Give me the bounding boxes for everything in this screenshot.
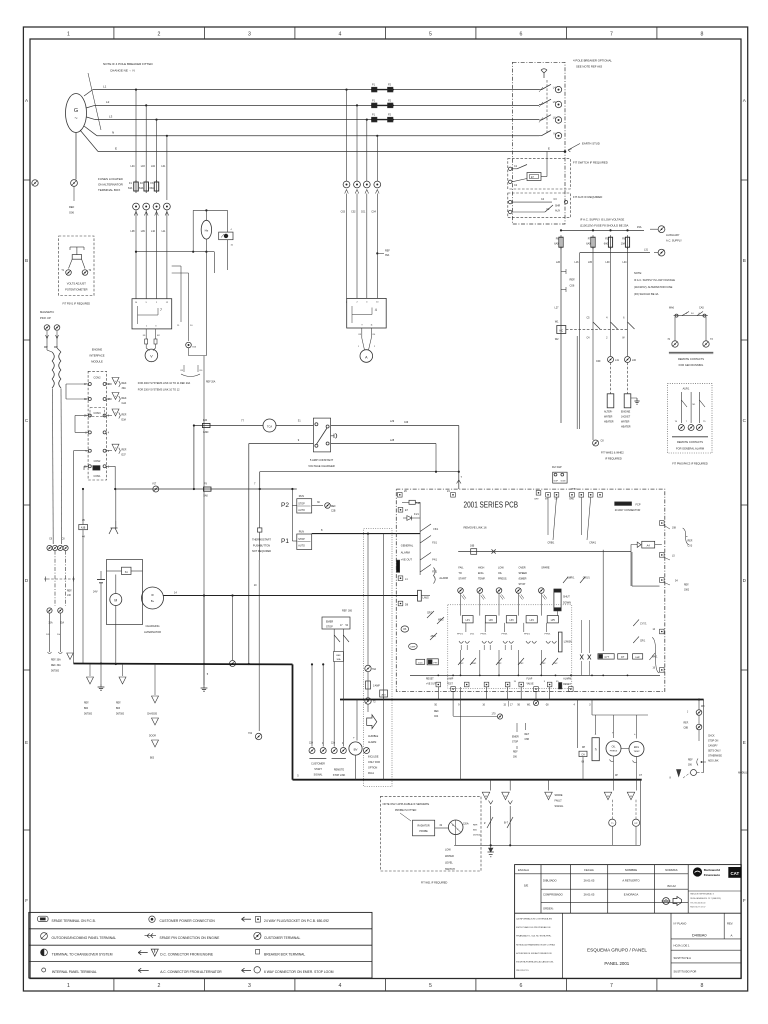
svg-text:F1/2: F1/2 [459, 663, 464, 665]
svg-text:ALARM: ALARM [401, 551, 410, 555]
svg-text:WATER: WATER [621, 421, 630, 424]
svg-text:D67500: D67500 [116, 714, 125, 716]
svg-text:CRB0: CRB0 [571, 489, 578, 491]
svg-text:INTERFACE: INTERFACE [89, 354, 104, 358]
wire F5 drop [610, 247, 612, 356]
wire thermostart drop [248, 444, 250, 665]
svg-text:OTHERWISE: OTHERWISE [708, 756, 722, 758]
heater ground [631, 397, 637, 399]
contact F2/2 [496, 658, 502, 665]
svg-text:NOTE:: NOTE: [634, 271, 642, 275]
svg-text:PP2/1: PP2/1 [481, 634, 488, 636]
fuse F2 63A [144, 182, 149, 191]
contact F3/2 [518, 658, 524, 665]
bus DC negative [74, 663, 293, 666]
svg-text:12A: 12A [331, 742, 336, 745]
wire charger output L29 [331, 425, 459, 427]
wire aux AC neutral [580, 252, 650, 254]
contact CYT/1 [633, 620, 639, 627]
svg-text:CHANGE NE → N: CHANGE NE → N [110, 69, 135, 73]
lamp LP2 [485, 616, 496, 623]
chassis ref B03 [122, 664, 124, 676]
breaker enclosure CB1 (dash-dot) [513, 62, 566, 224]
svg-text:0P: 0P [615, 775, 618, 777]
gauge oil pressure [606, 741, 621, 756]
svg-text:F1/1: F1/1 [414, 513, 419, 516]
wire 50 [437, 687, 439, 700]
svg-text:REF.: REF. [434, 711, 439, 713]
wire 5 dc common [203, 596, 205, 686]
svg-text:WATER: WATER [445, 855, 454, 858]
svg-text:ADD LINK: ADD LINK [708, 760, 719, 763]
pcb top aux pins [579, 493, 584, 498]
svg-text:CRS/1: CRS/1 [583, 577, 591, 580]
pcb internal verticals [460, 593, 462, 615]
wire L08 tap to Hz meter [136, 251, 214, 253]
wire 70A [367, 534, 369, 665]
svg-text:16B: 16B [470, 545, 475, 548]
svg-text:REF.: REF. [473, 825, 478, 827]
svg-text:RESET: RESET [426, 679, 434, 681]
pcb enclosure 2001 series (dash-dot) [396, 489, 665, 691]
sender wire CT [636, 757, 638, 791]
wire 15/17 [507, 687, 509, 700]
bus emer vertical [292, 664, 294, 779]
svg-text:RUN: RUN [299, 495, 304, 498]
svg-text:NOMBRE: NOMBRE [625, 868, 637, 872]
lamp LP1 [462, 616, 473, 623]
svg-text:A: A [731, 934, 733, 938]
bracket MA/1 [652, 637, 659, 673]
svg-text:LOW: LOW [498, 567, 504, 570]
option box (dotted) [364, 529, 392, 787]
general alarm output block [397, 560, 400, 572]
terminal T1 [66, 270, 72, 276]
svg-text:6: 6 [519, 983, 522, 989]
svg-text:REF. 30A: REF. 30A [51, 659, 61, 662]
legend dc connector symbol [138, 952, 148, 954]
box volts adjust potentiometer (dashed) [59, 236, 94, 296]
pcb top pin 24b [451, 493, 456, 498]
terminal 70A [365, 665, 371, 671]
ground water level [490, 845, 492, 852]
svg-text:CON3: CON3 [94, 412, 102, 415]
fuse F9 5A [204, 487, 212, 491]
breaker pole L4 [539, 89, 542, 91]
svg-text:STOP: STOP [512, 742, 519, 744]
svg-text:SHUT: SHUT [563, 595, 570, 598]
legend 24 way plug [242, 918, 252, 920]
svg-text:LEVEL: LEVEL [445, 862, 453, 865]
svg-text:MA6: MA6 [669, 307, 675, 310]
svg-text:L02: L02 [151, 165, 156, 168]
svg-text:PRESS.: PRESS. [498, 578, 507, 581]
svg-text:FIT SWITCH IF REQUIRED: FIT SWITCH IF REQUIRED [573, 161, 608, 165]
svg-text:REMOVE LINK 16: REMOVE LINK 16 [464, 526, 487, 530]
legend 6 way connector symbol [242, 969, 252, 971]
svg-text:L09: L09 [141, 230, 146, 233]
terminal C4 wire [509, 200, 512, 203]
svg-text:LA INFORMACION CONTENIDA EN: LA INFORMACION CONTENIDA EN [516, 918, 552, 921]
svg-text:A.C. CONNECTOR FROM ALTERNATOR: A.C. CONNECTOR FROM ALTERNATOR [160, 970, 222, 974]
svg-text:ORDEN:: ORDEN: [543, 907, 554, 911]
wire L16 drop [579, 253, 581, 429]
svg-text:F: F [25, 898, 28, 903]
wire F8 drop [627, 247, 629, 356]
svg-text:Y02: Y02 [248, 733, 253, 735]
svg-text:CR/1: CR/1 [640, 641, 646, 643]
alarm bracket [434, 568, 436, 584]
wire 9 feed [249, 443, 314, 445]
svg-text:ALARM: ALARM [439, 577, 448, 580]
emer stop pushbutton [322, 617, 350, 629]
svg-text:ENGINE: ENGINE [621, 411, 631, 414]
svg-text:BREAKER BOX TERMINAL: BREAKER BOX TERMINAL [264, 952, 305, 956]
svg-text:ISO A2: ISO A2 [667, 884, 676, 888]
svg-text:LAMP: LAMP [447, 678, 454, 681]
wire 32 [435, 827, 449, 829]
wire 30 from P2 [312, 505, 323, 507]
svg-text:ESTE PLANO ES PROPIEDAD DE: ESTE PLANO ES PROPIEDAD DE [516, 926, 551, 929]
svg-text:SOP: SOP [554, 481, 559, 483]
svg-text:ALR/1: ALR/1 [683, 388, 690, 391]
underline remote stop [332, 758, 346, 760]
pickup coil winding A [52, 352, 54, 361]
svg-text:PRESS: PRESS [610, 751, 618, 753]
terminal W9 [696, 710, 702, 716]
title header row [515, 873, 689, 875]
terminal C8 [593, 440, 599, 446]
svg-text:FOR 230V SYSTEMS LINK 10 TO 12: FOR 230V SYSTEMS LINK 10 TO 12 [138, 389, 180, 392]
svg-text:OVER: OVER [519, 567, 526, 570]
fuse F6 6A [559, 237, 563, 247]
svg-text:MAGNETIC: MAGNETIC [40, 310, 54, 314]
svg-text:L00: L00 [632, 359, 637, 362]
ground battery negative [100, 664, 102, 685]
wire 4 gauge feed [577, 700, 579, 749]
svg-text:SHR: SHR [555, 205, 560, 208]
device REF 35A [227, 210, 229, 232]
wire aux AC supply feed [561, 229, 644, 231]
svg-text:L41: L41 [615, 359, 620, 362]
legend customer terminal symbol [254, 932, 261, 939]
svg-text:REF.: REF. [684, 723, 689, 725]
leader line from note to N wire [88, 73, 101, 130]
svg-text:(F6) SHOULD BE 4A: (F6) SHOULD BE 4A [634, 292, 659, 296]
svg-text:MITIDA LA TRANSMISION DE COPIA: MITIDA LA TRANSMISION DE COPIAS [516, 943, 555, 946]
svg-text:L01: L01 [161, 165, 166, 168]
contact F1/2 [458, 658, 464, 665]
svg-text:FAULT: FAULT [555, 800, 563, 803]
svg-text:REF.: REF. [122, 449, 128, 452]
svg-text:W: W [452, 825, 454, 827]
svg-text:L3W3A: L3W3A [564, 641, 572, 644]
svg-text:CA5: CA5 [699, 307, 704, 310]
svg-text:IF A.C. SUPPLY IS LOW VOLTAGE: IF A.C. SUPPLY IS LOW VOLTAGE [580, 218, 624, 222]
CT P1/P2 on L2 [372, 103, 378, 108]
legend breaker box terminal symbol [256, 949, 260, 954]
svg-text:SPADE TERMINAL ON P.C.B.: SPADE TERMINAL ON P.C.B. [52, 919, 96, 923]
svg-text:CYT: CYT [605, 657, 610, 659]
svg-text:CR9: CR9 [534, 499, 539, 501]
svg-text:CAT: CAT [730, 871, 739, 876]
svg-text:26-01-05: 26-01-05 [584, 893, 595, 897]
svg-text:Finanzauto: Finanzauto [704, 873, 720, 877]
hour meter h [592, 738, 599, 761]
customer start wires [311, 664, 313, 746]
svg-text:STOP: STOP [326, 626, 333, 629]
svg-text:306: 306 [348, 610, 353, 613]
legend internal panel terminal symbol [42, 968, 46, 972]
iso projection symbol [663, 898, 670, 905]
terminal C2 [509, 180, 512, 183]
svg-text:C01: C01 [361, 211, 366, 214]
svg-text:F6/1: F6/1 [433, 528, 438, 531]
svg-text:SPARE: SPARE [555, 794, 563, 797]
svg-text:LP3: LP3 [509, 620, 514, 622]
wire L3 [95, 119, 539, 121]
fuse F8 10A [625, 237, 629, 247]
svg-text:F4/2: F4/2 [541, 663, 546, 665]
pcb right pin 16 [660, 668, 665, 673]
svg-text:IF A.C. SUPPLY IS LOW VOLTAGE: IF A.C. SUPPLY IS LOW VOLTAGE [634, 278, 675, 282]
svg-text:B-7: B-7 [504, 821, 509, 825]
svg-text:6A0: 6A0 [604, 243, 609, 246]
logo CAT [729, 867, 741, 877]
svg-text:REF. 30A: REF. 30A [51, 664, 61, 667]
svg-text:N° PLANO: N° PLANO [674, 922, 687, 926]
wires to ref 30A [49, 613, 51, 652]
lamp LP3 [506, 616, 516, 623]
svg-text:CON2: CON2 [94, 377, 102, 380]
svg-text:GENERAL: GENERAL [401, 544, 414, 548]
svg-text:DMP: DMP [410, 647, 415, 649]
svg-text:Barloworld: Barloworld [704, 868, 720, 872]
contact MA/1 [649, 653, 655, 660]
potentiometer PSV1 [72, 255, 81, 260]
svg-text:D40BA0: D40BA0 [692, 933, 707, 938]
svg-text:E37: E37 [122, 454, 127, 457]
svg-text:LP5: LP5 [551, 620, 556, 622]
terminal C1 [509, 167, 512, 170]
wire E [98, 151, 565, 153]
svg-text:HC: HC [559, 330, 563, 333]
svg-text:FIT PWG/PAC3 IF REQUIRED: FIT PWG/PAC3 IF REQUIRED [672, 462, 708, 466]
svg-text:REF: REF [513, 752, 518, 754]
svg-text:STOP: STOP [519, 583, 526, 586]
svg-text:C8B: C8B [684, 728, 689, 730]
svg-text:LP1: LP1 [466, 620, 471, 622]
svg-text:7: 7 [610, 31, 613, 37]
svg-text:ENG.: ENG. [478, 572, 484, 575]
svg-text:(110/115V), ALTERNATOR FUSE: (110/115V), ALTERNATOR FUSE [634, 285, 673, 289]
svg-text:RET: RET [525, 734, 530, 736]
svg-text:L29: L29 [390, 420, 395, 423]
svg-text:REF.: REF. [122, 397, 128, 400]
sender circle DP [632, 819, 639, 826]
title block outline [515, 865, 742, 979]
svg-text:~: ~ [74, 116, 77, 122]
row tick marks left/right [23, 179, 30, 181]
relay A4 [637, 542, 641, 547]
svg-text:REF.: REF. [122, 382, 128, 385]
svg-text:REMOTE: REMOTE [334, 769, 345, 772]
wire pickup B down [60, 389, 63, 545]
svg-text:30A: 30A [337, 658, 341, 661]
pcb top pins CR group [536, 491, 541, 496]
svg-text:CHASSIS: CHASSIS [147, 713, 158, 716]
svg-text:COMPROBADO: COMPROBADO [543, 893, 563, 897]
pcb top pin 26 [398, 493, 403, 498]
plano number cells [670, 913, 672, 978]
svg-text:STOP LINK: STOP LINK [333, 774, 346, 777]
component D13 [416, 659, 425, 664]
svg-text:RESET: RESET [563, 684, 571, 686]
svg-text:REF.: REF. [84, 703, 89, 705]
wire starter links [107, 570, 122, 572]
svg-text:C03: C03 [341, 211, 346, 214]
wire 170 [452, 692, 454, 717]
generator G1 [66, 94, 87, 133]
wire N [97, 135, 539, 137]
svg-text:SUSTITUYE A: SUSTITUYE A [674, 956, 692, 960]
spare triangle [67, 653, 74, 660]
terminal E-gen [71, 180, 78, 187]
svg-text:TO: TO [458, 572, 461, 575]
svg-text:PUSHBUTTON: PUSHBUTTON [253, 544, 270, 547]
title rows [541, 888, 688, 890]
alarm contact common [690, 392, 692, 423]
svg-text:E3A: E3A [122, 418, 127, 421]
underline gen running [669, 351, 713, 353]
terminal stop link 1 [331, 748, 337, 754]
connector CT [627, 792, 635, 800]
changeover feeder B (dash-dot) [65, 551, 67, 606]
svg-text:6: 6 [519, 31, 522, 37]
svg-text:N: N [112, 131, 114, 135]
svg-text:SIGNAL: SIGNAL [555, 805, 564, 808]
pcb pin E7 [398, 508, 403, 513]
svg-text:D67500: D67500 [51, 671, 60, 673]
svg-text:SUSTITUIDO POR: SUSTITUIDO POR [674, 970, 697, 974]
svg-text:L08: L08 [131, 230, 136, 233]
terminal W9b [696, 724, 702, 730]
module pins left [88, 383, 91, 386]
terminal thermostart bottom [255, 733, 261, 739]
charging alternator W1 [142, 587, 164, 609]
svg-text:5 AMP CONSTANT: 5 AMP CONSTANT [310, 458, 334, 462]
svg-text:L04: L04 [623, 261, 628, 264]
contact F4/2 [540, 658, 546, 665]
wire charger drop to pcb [458, 426, 460, 490]
svg-text:TERMINAL BOX: TERMINAL BOX [98, 188, 120, 192]
svg-text:D67500: D67500 [84, 714, 93, 716]
svg-text:POTENTIOMETER: POTENTIOMETER [65, 288, 87, 292]
mcb link dashed [47, 578, 72, 580]
meter CH [579, 751, 587, 756]
svg-text:L/W/2: L/W/2 [423, 597, 430, 600]
alarm contact F6/1 [420, 524, 431, 532]
svg-text:VOLTS ADJUST: VOLTS ADJUST [67, 282, 86, 286]
svg-text:SPARE: SPARE [541, 567, 550, 570]
svg-text:4 POLE BREAKER OPTIONAL: 4 POLE BREAKER OPTIONAL [573, 59, 612, 63]
changeover feeder A (dash-dot) [54, 551, 56, 606]
svg-text:CRA: CRA [569, 498, 574, 501]
terminal 73 [703, 341, 709, 347]
wire C09 [560, 326, 562, 424]
svg-text:A3B: A3B [81, 527, 86, 530]
svg-text:A.C. SUPPLY: A.C. SUPPLY [666, 239, 682, 243]
lamp LP5 [547, 616, 558, 623]
svg-text:ALX: ALX [382, 693, 387, 696]
starter motor box [107, 560, 143, 625]
wire W1 term [533, 700, 538, 705]
connector OP [604, 792, 612, 800]
hour counter supply [591, 700, 593, 716]
svg-text:L27: L27 [555, 307, 560, 310]
breaker pole L6 [539, 119, 542, 121]
svg-text:FPT: FPT [434, 662, 439, 664]
pcb internal bus [410, 674, 660, 676]
svg-text:MODULE: MODULE [91, 360, 103, 364]
terminal aux neutral [658, 249, 665, 256]
underline customer start [309, 758, 326, 760]
thermostart pushbutton [258, 528, 262, 532]
water level sender [448, 820, 463, 835]
svg-text:L31: L31 [644, 248, 649, 251]
svg-text:SETS ONLY: SETS ONLY [708, 751, 721, 753]
REF E3A takeoff [106, 415, 112, 417]
svg-text:FIT WHE1 & WHE2: FIT WHE1 & WHE2 [601, 451, 624, 455]
svg-text:2001 SERIES PCB: 2001 SERIES PCB [464, 500, 519, 510]
svg-text:1: 1 [67, 983, 70, 989]
meter TCA [263, 419, 276, 432]
svg-text:J082: J082 [684, 590, 690, 592]
svg-text:INCLUDE: INCLUDE [368, 756, 379, 759]
emer stop contacts [333, 629, 335, 652]
wire TCA to charger 31 [276, 425, 313, 427]
svg-text:STOP: STOP [298, 503, 305, 506]
svg-text:FINANZAUTO, S.A. NO ESTA PER-: FINANZAUTO, S.A. NO ESTA PER- [516, 935, 551, 938]
svg-text:FOR GENERAL ALARM: FOR GENERAL ALARM [676, 446, 704, 450]
label SMR/1 [563, 577, 568, 583]
contact AB/3 [430, 633, 437, 640]
svg-text:THERMOSTART: THERMOSTART [252, 539, 271, 542]
svg-text:AUTO: AUTO [298, 545, 305, 548]
alternator terminals L1-N [133, 203, 140, 210]
svg-text:DOOR: DOOR [149, 736, 156, 738]
aux switch K2 [509, 210, 512, 213]
svg-text:ESCRITA FUERA DEL ALCANCE DEL: ESCRITA FUERA DEL ALCANCE DEL [516, 961, 554, 964]
svg-text:ALARM: ALARM [563, 678, 571, 681]
svg-text:C06: C06 [570, 284, 575, 288]
svg-text:PARQUE EMPRESARIAL S: PARQUE EMPRESARIAL S [690, 893, 714, 896]
column tick marks top/bottom [113, 27, 115, 39]
svg-text:170: 170 [492, 713, 497, 716]
svg-text:D.C. CONNECTOR FROM ENGINE: D.C. CONNECTOR FROM ENGINE [160, 952, 214, 956]
disclaimer cell [562, 913, 564, 978]
meter V1 voltmeter [145, 349, 158, 362]
wire alt aux terminal [232, 596, 234, 661]
svg-text:8: 8 [700, 31, 703, 37]
wires CRA/1 [580, 497, 582, 535]
alarm contact F3/1 [420, 536, 431, 544]
chassis ref B00 [89, 664, 91, 676]
svg-text:OUTGOING/INCOMING PANEL TERMIN: OUTGOING/INCOMING PANEL TERMINAL [52, 936, 117, 940]
svg-text:REF.: REF. [116, 703, 121, 705]
svg-text:2: 2 [157, 983, 160, 989]
svg-text:START: START [458, 578, 466, 581]
